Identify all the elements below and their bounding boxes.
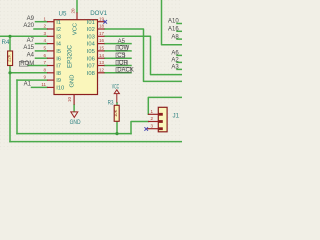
pin names left I1-I10 <box>56 20 64 92</box>
pin 2 stub <box>47 28 54 30</box>
wire stub A8 <box>177 38 182 40</box>
wire pin4 A7 <box>36 43 48 45</box>
wire A8 net from top <box>162 0 183 45</box>
label ROM boxed <box>19 61 34 67</box>
junction R3/W2 <box>115 132 118 135</box>
pin 9 stub <box>47 79 54 81</box>
wire stub A16 <box>177 30 182 32</box>
svg-text:R3: R3 <box>108 100 114 107</box>
junction pin3/R4 <box>8 35 11 38</box>
svg-text:GND: GND <box>69 75 75 88</box>
wire pin16 A5 <box>105 43 132 45</box>
wire pin15 IOW <box>105 50 132 52</box>
svg-text:DACK: DACK <box>117 68 134 74</box>
pin 16 stub <box>98 43 105 45</box>
connector J1 body <box>158 107 167 132</box>
pin 18 stub <box>98 28 105 30</box>
svg-text:10: 10 <box>67 97 72 103</box>
svg-text:IOW: IOW <box>117 46 129 52</box>
svg-text:18: 18 <box>99 24 105 29</box>
wire stub A2 <box>177 61 182 63</box>
svg-text:A16: A16 <box>168 27 179 33</box>
junction pin8 <box>8 71 11 74</box>
wire pin6 A4 <box>36 57 48 59</box>
svg-text:A8: A8 <box>171 34 179 40</box>
wire vertical R4 net upper <box>9 36 11 51</box>
svg-text:A20: A20 <box>23 23 34 29</box>
svg-text:A10: A10 <box>168 19 179 25</box>
svg-text:ROM: ROM <box>20 61 34 67</box>
J1 pin numbers <box>151 109 154 128</box>
wire R3 to W2 <box>116 122 118 134</box>
svg-text:I3: I3 <box>56 34 61 40</box>
svg-text:I03: I03 <box>87 34 95 40</box>
wire VCC to R3 <box>116 103 118 106</box>
svg-text:IOR: IOR <box>117 60 128 66</box>
wire pin5 A15 <box>36 50 48 52</box>
wire pin2 A20 <box>34 28 47 30</box>
svg-text:I5: I5 <box>56 49 61 55</box>
wire pin3 from left edge <box>0 35 47 37</box>
wire pin8 <box>10 72 47 74</box>
svg-text:I02: I02 <box>87 27 95 33</box>
IC U5 body <box>54 20 98 95</box>
svg-text:I05: I05 <box>87 49 95 55</box>
wire pin17 route <box>105 36 183 74</box>
svg-text:10K: 10K <box>113 109 118 117</box>
J1 pad tabs <box>158 113 163 130</box>
wire pin13 IOR <box>105 65 132 67</box>
pin 12 stub <box>98 72 105 74</box>
pin 6 stub <box>47 57 54 59</box>
svg-text:J1: J1 <box>173 112 180 119</box>
wire pin20 VCC <box>76 0 78 12</box>
pin 19 stub <box>98 21 105 23</box>
svg-text:22K: 22K <box>6 54 11 62</box>
wire step up to J1 pin2 <box>131 122 148 134</box>
J1 pin stubs <box>147 114 158 128</box>
svg-text:13: 13 <box>99 60 105 65</box>
wire bottom W1 <box>10 141 182 143</box>
wire pin18 route <box>105 29 183 81</box>
GND power symbol <box>71 112 78 118</box>
label DACK boxed <box>116 68 134 74</box>
wire pin10 GND <box>73 105 75 112</box>
svg-text:I8: I8 <box>56 71 61 77</box>
pin numbers left <box>41 16 46 87</box>
pin 4 stub <box>47 43 54 45</box>
wire pin1 A9 <box>36 21 48 23</box>
pin 20 stub <box>76 12 78 19</box>
svg-text:11: 11 <box>41 82 46 87</box>
pin 1 stub <box>47 21 54 23</box>
label CS boxed <box>116 53 126 59</box>
no-connect X pin19 <box>103 20 107 24</box>
svg-text:A3: A3 <box>171 65 179 71</box>
svg-text:14: 14 <box>99 53 105 58</box>
pin 15 stub <box>98 50 105 52</box>
wire vertical pin9 net <box>16 80 18 134</box>
svg-text:I6: I6 <box>56 56 61 62</box>
svg-text:I4: I4 <box>56 42 62 48</box>
wire stub A3 <box>177 68 182 70</box>
net labels left <box>23 16 34 87</box>
wire pin7 ROM <box>28 65 47 67</box>
no-connect X J1 pin3 <box>144 127 148 131</box>
svg-text:15: 15 <box>99 46 105 51</box>
pin 13 stub <box>98 65 105 67</box>
wire pin12 DACK <box>105 72 132 74</box>
svg-text:I2: I2 <box>56 27 61 33</box>
resistor R3 <box>114 105 119 121</box>
pin 8 stub <box>47 72 54 74</box>
pin 10 stub <box>73 95 75 105</box>
svg-text:U5: U5 <box>59 10 67 17</box>
svg-text:A2: A2 <box>171 58 179 64</box>
svg-text:A1: A1 <box>24 81 32 87</box>
wire bottom W2 <box>17 133 131 135</box>
svg-text:A7: A7 <box>27 38 35 44</box>
svg-text:GND: GND <box>70 119 81 126</box>
pin 5 stub <box>47 50 54 52</box>
svg-text:A5: A5 <box>118 39 126 45</box>
svg-text:A15: A15 <box>23 45 34 51</box>
wire stub A6 <box>177 54 182 56</box>
svg-text:A6: A6 <box>171 51 179 57</box>
pin 17 stub <box>98 35 105 37</box>
wire pin11 A1 <box>32 86 48 88</box>
pin 11 stub <box>47 86 54 88</box>
label IOW boxed <box>116 46 130 52</box>
svg-text:I9: I9 <box>56 78 61 84</box>
svg-text:12: 12 <box>99 67 105 72</box>
svg-text:DOV1: DOV1 <box>90 10 107 17</box>
pin 7 stub <box>47 65 54 67</box>
svg-text:A4: A4 <box>27 52 35 58</box>
wire J1 pin1 net <box>148 97 182 114</box>
svg-text:I10: I10 <box>56 86 64 92</box>
svg-text:I7: I7 <box>56 64 61 70</box>
wire pin9 <box>17 79 47 81</box>
svg-text:EP320C: EP320C <box>66 44 73 68</box>
pin names right IO1-IO8 <box>87 20 96 77</box>
svg-text:16: 16 <box>99 38 105 43</box>
wire vertical R4 net lower <box>9 66 11 142</box>
svg-text:I06: I06 <box>87 56 95 62</box>
resistor R4 <box>8 51 13 66</box>
svg-text:20: 20 <box>70 8 75 14</box>
pin numbers right <box>99 16 105 72</box>
svg-text:17: 17 <box>99 31 105 36</box>
svg-text:R4: R4 <box>2 39 10 46</box>
wire stub A10 <box>177 23 182 25</box>
svg-text:CS: CS <box>117 53 125 59</box>
svg-text:VCC: VCC <box>112 83 120 90</box>
svg-text:A9: A9 <box>27 16 35 22</box>
label IOR boxed <box>116 60 129 66</box>
svg-text:I1: I1 <box>56 20 61 26</box>
svg-text:I01: I01 <box>87 20 95 26</box>
pin 3 stub <box>47 35 54 37</box>
svg-text:I07: I07 <box>87 64 95 70</box>
VCC power symbol <box>114 90 119 103</box>
svg-text:I08: I08 <box>87 71 95 77</box>
pin 14 stub <box>98 57 105 59</box>
wire pin14 CS <box>105 57 132 59</box>
svg-text:VCC: VCC <box>73 23 79 35</box>
svg-text:I04: I04 <box>87 42 96 48</box>
net labels right column <box>168 19 179 71</box>
